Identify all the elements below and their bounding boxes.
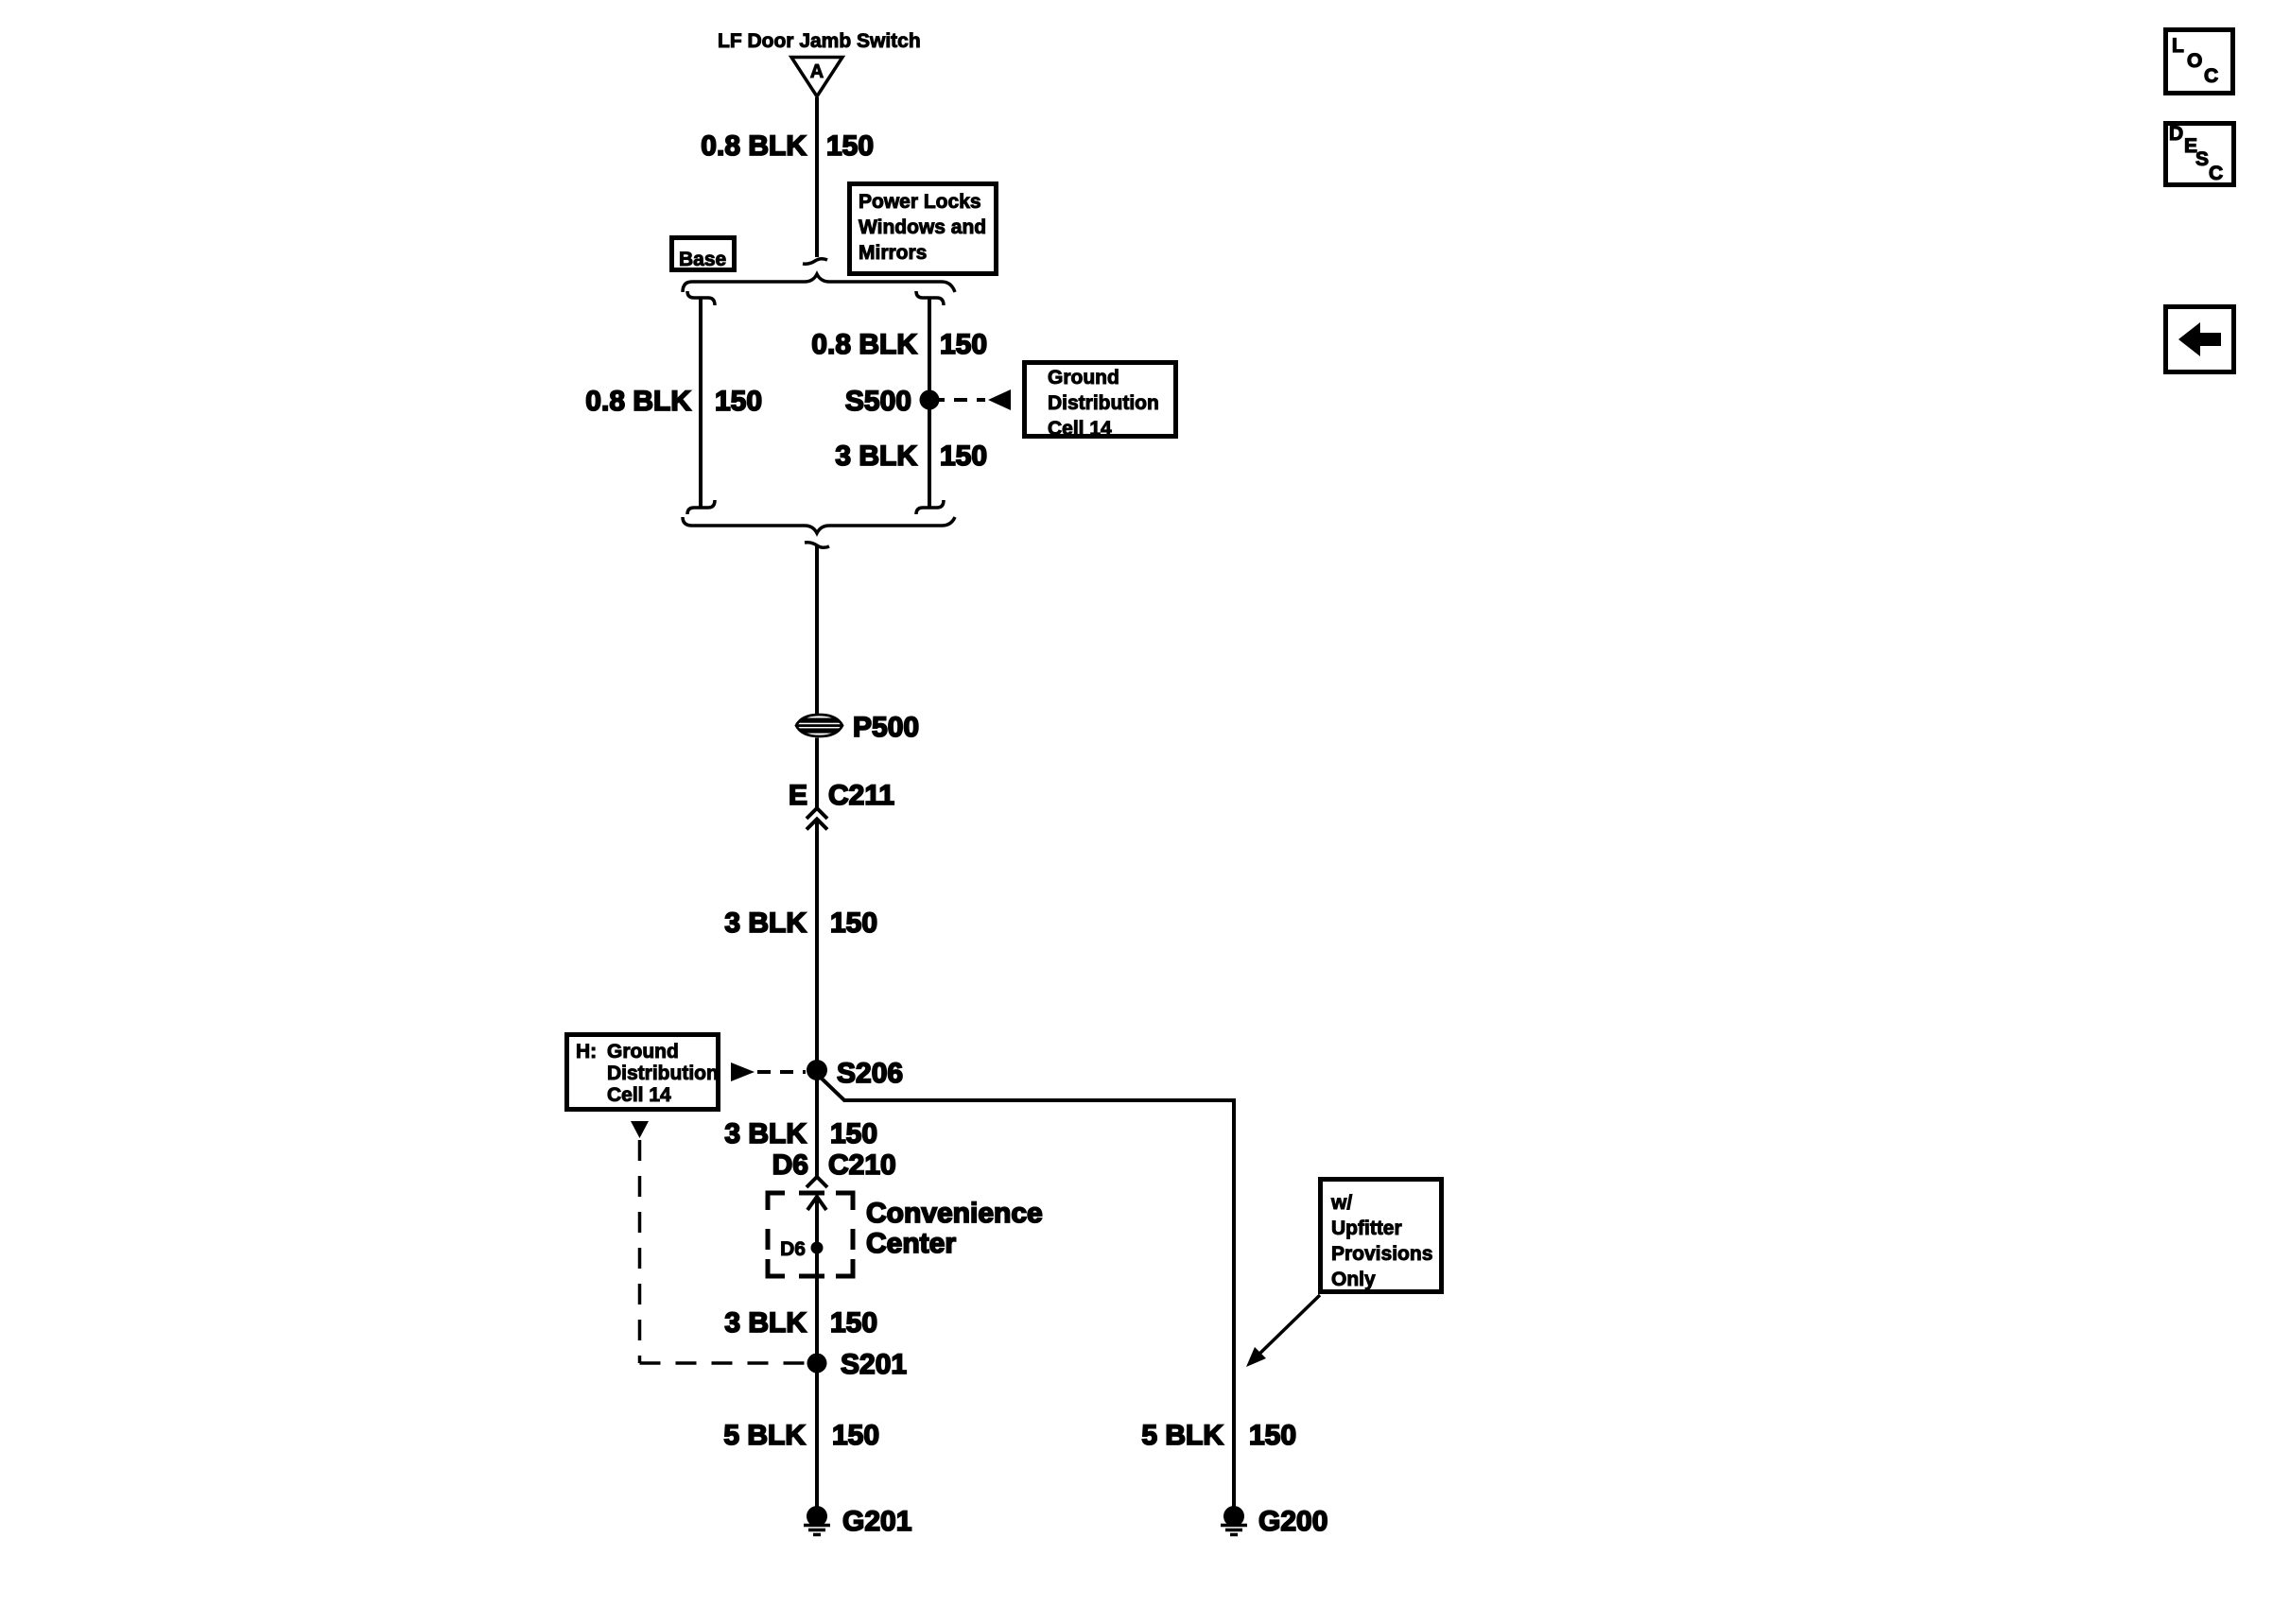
H: Ground Distribution Cell 14 box	[567, 1035, 719, 1110]
svg-text:150: 150	[1249, 1420, 1296, 1451]
splice S201	[807, 1354, 827, 1373]
svg-text:S206: S206	[837, 1058, 903, 1089]
back arrow icon box	[2166, 307, 2234, 372]
svg-text:Upfitter: Upfitter	[1331, 1218, 1402, 1239]
svg-text:Provisions: Provisions	[1331, 1243, 1432, 1265]
w/ Upfitter Provisions Only box	[1321, 1180, 1442, 1292]
svg-text:3 BLK: 3 BLK	[724, 1118, 807, 1149]
connector chevron C210	[807, 1177, 827, 1187]
arrowhead pointing left at Ground Distribution box	[988, 389, 1011, 410]
svg-text:0.8 BLK: 0.8 BLK	[811, 329, 917, 360]
connector chevrons C211	[807, 808, 827, 819]
svg-text:C: C	[2204, 65, 2218, 87]
svg-text:C211: C211	[828, 780, 894, 811]
svg-text:Base: Base	[679, 249, 726, 270]
wire from S201 down to G201	[815, 1363, 819, 1507]
svg-text:O: O	[2187, 50, 2202, 72]
svg-text:C210: C210	[828, 1149, 896, 1181]
svg-text:3 BLK: 3 BLK	[835, 441, 917, 472]
svg-text:S500: S500	[845, 386, 911, 417]
Power Locks Windows and Mirrors box	[850, 184, 997, 274]
svg-text:Only: Only	[1331, 1269, 1376, 1290]
svg-text:3 BLK: 3 BLK	[724, 1307, 807, 1339]
dashed reference line from S500	[931, 398, 985, 402]
bottom merge brace	[683, 517, 955, 533]
svg-text:150: 150	[715, 386, 762, 417]
svg-text:150: 150	[832, 1420, 879, 1451]
svg-text:150: 150	[830, 907, 877, 939]
svg-text:S201: S201	[841, 1349, 907, 1380]
wire from C211 down to S206	[815, 820, 819, 1178]
svg-text:Cell 14: Cell 14	[607, 1084, 671, 1106]
svg-text:w/: w/	[1330, 1192, 1352, 1214]
wire from triangle A down	[815, 97, 819, 257]
svg-text:G201: G201	[842, 1506, 911, 1537]
svg-text:G200: G200	[1258, 1506, 1327, 1537]
svg-text:P500: P500	[853, 712, 919, 743]
LOC icon box	[2166, 30, 2233, 94]
DESC icon box	[2166, 124, 2234, 185]
svg-text:H:: H:	[576, 1041, 597, 1063]
svg-text:D6: D6	[780, 1238, 806, 1260]
svg-text:3 BLK: 3 BLK	[724, 907, 807, 939]
svg-text:LF Door Jamb Switch: LF Door Jamb Switch	[718, 30, 921, 52]
connector triangle A (LF Door Jamb Switch)	[791, 58, 842, 97]
svg-text:0.8 BLK: 0.8 BLK	[585, 386, 691, 417]
svg-text:150: 150	[940, 441, 987, 472]
wire from Convenience Center down to S201	[815, 1274, 819, 1363]
svg-text:C: C	[2209, 163, 2223, 184]
svg-text:Center: Center	[866, 1228, 956, 1259]
svg-text:5 BLK: 5 BLK	[1141, 1420, 1223, 1451]
wire end hook	[803, 259, 827, 264]
svg-text:Convenience: Convenience	[866, 1198, 1043, 1229]
svg-text:L: L	[2172, 35, 2184, 57]
svg-text:D: D	[2169, 123, 2183, 145]
arrow from Upfitter box to right branch wire	[1253, 1295, 1320, 1360]
svg-text:0.8 BLK: 0.8 BLK	[701, 130, 807, 162]
down arrowhead below H box	[631, 1121, 649, 1138]
svg-text:Distribution: Distribution	[607, 1063, 719, 1084]
svg-text:150: 150	[940, 329, 987, 360]
top split brace	[683, 274, 955, 292]
right branch bracket (Power Locks)	[916, 291, 944, 305]
svg-text:Mirrors: Mirrors	[859, 242, 927, 264]
splice S206	[807, 1060, 827, 1080]
wire from P500 down to C211	[815, 738, 819, 810]
arrowhead pointing right from H box	[731, 1063, 755, 1081]
svg-text:Windows and: Windows and	[859, 216, 986, 238]
dashed reference line to S206	[757, 1070, 806, 1074]
Base box	[672, 238, 735, 270]
svg-text:A: A	[810, 61, 824, 82]
svg-text:Distribution: Distribution	[1048, 392, 1159, 414]
terminal arrow up inside Convenience Center	[815, 1197, 819, 1274]
svg-text:150: 150	[830, 1307, 877, 1339]
svg-text:150: 150	[826, 130, 874, 162]
ground G201	[807, 1506, 827, 1527]
svg-text:E: E	[789, 780, 807, 811]
svg-text:S: S	[2195, 148, 2209, 170]
svg-text:Cell 14: Cell 14	[1048, 418, 1112, 440]
Convenience Center dashed box	[768, 1193, 853, 1276]
Ground Distribution Cell 14 box	[1025, 363, 1176, 437]
svg-text:150: 150	[830, 1118, 877, 1149]
left branch bracket (Base)	[687, 291, 715, 305]
grommet P500	[794, 715, 844, 736]
svg-text:5 BLK: 5 BLK	[723, 1420, 806, 1451]
svg-text:Power Locks: Power Locks	[859, 191, 981, 213]
svg-text:Ground: Ground	[607, 1041, 679, 1063]
wire from merge down to P500	[815, 545, 819, 714]
dashed line to S201	[640, 1361, 806, 1365]
dashed line from H box arrow down	[638, 1140, 642, 1363]
wire start hook below brace	[805, 543, 829, 547]
ground G200	[1223, 1506, 1244, 1527]
svg-text:D6: D6	[772, 1149, 808, 1181]
svg-text:Ground: Ground	[1048, 367, 1119, 389]
branch wire from S206 to right	[820, 1077, 1234, 1507]
